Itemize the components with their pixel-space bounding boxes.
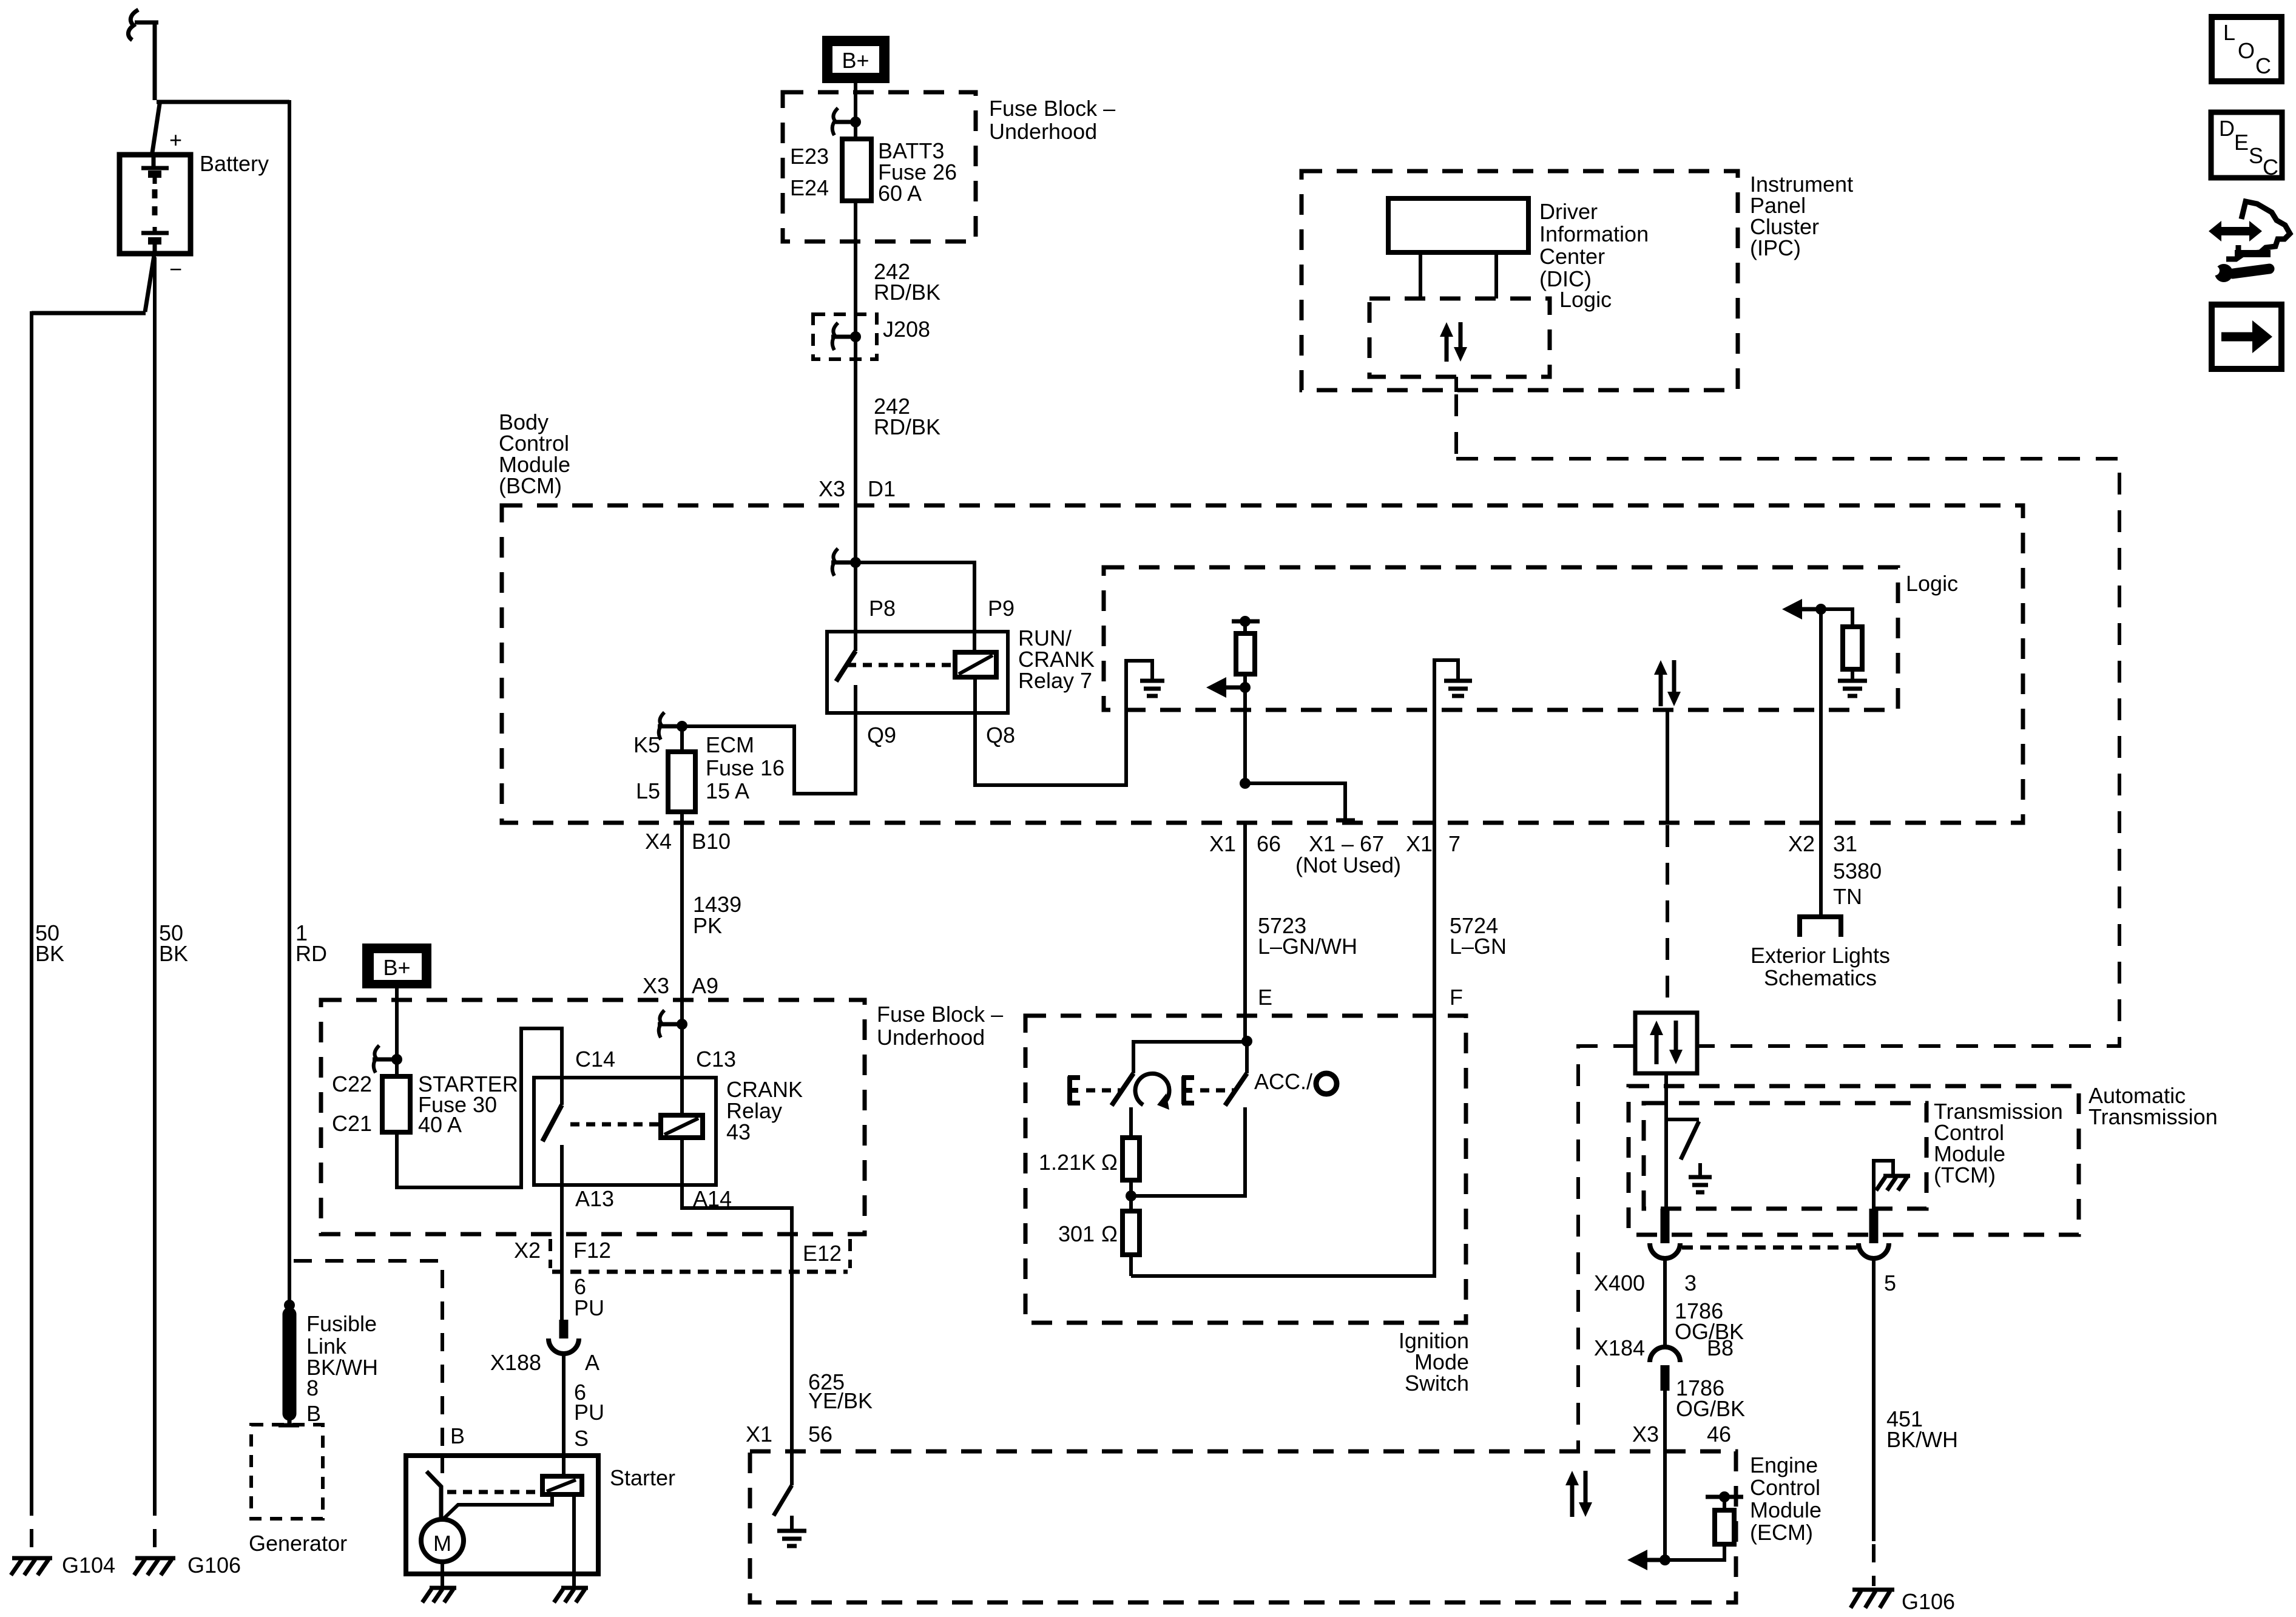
automatic transmission box — [1629, 1086, 2079, 1235]
starter box — [406, 1456, 598, 1574]
TCM switch — [1666, 1119, 1699, 1209]
clip at C13 — [658, 1010, 687, 1038]
inline connector X184 — [1650, 1347, 1680, 1391]
wire: B+ to BATT3 fuse — [854, 83, 857, 139]
label E (run position) — [1068, 1076, 1120, 1104]
svg-text:D1: D1 — [868, 476, 896, 501]
fuse ECM Fuse 16 15 A — [668, 726, 695, 823]
connector B+ (lower) — [362, 944, 431, 988]
wire 1 RD: battery positive to fusible link — [288, 100, 291, 1305]
fuse block underhood box (lower) — [321, 1000, 865, 1234]
fuse BATT3 Fuse 26 60 A — [842, 139, 871, 201]
svg-text:X400: X400 — [1594, 1271, 1645, 1295]
connector B+ (top) — [822, 36, 890, 83]
connector X400 pin 5 — [1859, 1209, 1889, 1258]
generator box — [251, 1425, 323, 1519]
ECM crank request switch (56) — [774, 1451, 792, 1516]
svg-text:Ω: Ω — [1101, 1150, 1118, 1175]
svg-text:43: 43 — [726, 1119, 751, 1144]
svg-text:ECM: ECM — [706, 732, 754, 757]
starter switch contact — [427, 1456, 442, 1520]
wire TCM serial box to switch — [1664, 1073, 1668, 1119]
icon next arrow box — [2212, 305, 2281, 369]
acc contact blade — [1225, 1073, 1247, 1106]
svg-text:(TCM): (TCM) — [1934, 1163, 1996, 1187]
svg-text:RD/BK: RD/BK — [874, 280, 940, 305]
svg-text:S: S — [574, 1426, 589, 1451]
svg-text:P8: P8 — [869, 596, 896, 621]
wire serial data BCM — [1666, 710, 1669, 823]
IPC box — [1302, 171, 1738, 390]
node: fusible link junction — [284, 1300, 295, 1311]
wire: slant into battery positive terminal — [152, 100, 160, 157]
svg-text:G106: G106 — [1902, 1589, 1955, 1614]
svg-text:Driver: Driver — [1539, 199, 1598, 224]
connector X400 body dashes — [1682, 1246, 1857, 1250]
wire 451 BK/WH to G106 — [1872, 1258, 1876, 1541]
ignition switch run contact — [1133, 1042, 1247, 1073]
resistor 1.21K — [1123, 1107, 1140, 1211]
BCM serial data arrows — [1654, 660, 1681, 706]
svg-text:B8: B8 — [1707, 1335, 1734, 1360]
svg-text:+: + — [169, 127, 182, 152]
svg-text:7: 7 — [1448, 831, 1460, 856]
resistor 301 — [1123, 1211, 1140, 1276]
wire DIC leg left — [1419, 252, 1422, 299]
wire 625 YE/BK E12 to ECM — [790, 1234, 794, 1451]
wire 5723 L-GN/WH — [1243, 823, 1247, 1041]
svg-text:X4: X4 — [645, 829, 672, 854]
ground (BCM X2 31) — [1838, 681, 1867, 696]
svg-text:66: 66 — [1257, 831, 1281, 856]
wire STARTER fuse to CRANK relay C14 — [397, 1028, 562, 1187]
icon DESC box — [2211, 112, 2282, 180]
ECM serial data arrows — [1565, 1471, 1592, 1517]
svg-text:E24: E24 — [790, 175, 829, 200]
wire 242 inside BCM to relay — [854, 505, 857, 562]
wire serial data to ECM (dashed) — [1578, 1046, 1635, 1451]
connector X400 pin 3 — [1650, 1209, 1680, 1258]
svg-text:301: 301 — [1058, 1221, 1095, 1246]
svg-text:46: 46 — [1707, 1422, 1731, 1447]
wire acc return — [1131, 1107, 1245, 1196]
wire 5380 TN — [1819, 609, 1823, 914]
BCM logic box — [1104, 567, 1898, 710]
wire B+ to STARTER fuse — [395, 988, 399, 1076]
wire Q8 to internal ground — [975, 661, 1152, 785]
svg-text:L–GN: L–GN — [1450, 934, 1507, 959]
wire solenoid to ground — [572, 1494, 576, 1587]
svg-text:5: 5 — [1884, 1271, 1896, 1295]
svg-text:Battery: Battery — [200, 151, 269, 176]
svg-text:Starter: Starter — [610, 1465, 675, 1490]
IPC serial data arrows — [1440, 322, 1467, 362]
svg-text:F12: F12 — [573, 1238, 611, 1263]
wire: battery positive to 1 RD branch — [157, 100, 289, 104]
svg-text:C: C — [2263, 155, 2278, 180]
svg-text:BK: BK — [159, 941, 188, 966]
ground G106 (right) — [1851, 1590, 1894, 1608]
icon LOC box — [2212, 17, 2281, 81]
wire: junction to P8 — [854, 562, 857, 651]
relay 2 actuation dashes — [570, 1122, 661, 1127]
svg-text:(Not Used): (Not Used) — [1295, 852, 1401, 877]
relay 1 switch blade — [836, 651, 856, 681]
svg-text:PU: PU — [574, 1400, 604, 1425]
svg-text:X1: X1 — [746, 1422, 772, 1447]
run contact blade — [1112, 1073, 1133, 1106]
inline connector X188 — [549, 1320, 579, 1354]
svg-text:Fusible: Fusible — [306, 1311, 377, 1336]
ground (TCM switch) — [1689, 1163, 1712, 1192]
svg-text:8: 8 — [306, 1376, 319, 1400]
svg-text:Underhood: Underhood — [877, 1025, 985, 1050]
DIC box — [1388, 198, 1528, 252]
wire X1 7 to internal ground — [1434, 660, 1458, 1016]
svg-text:C14: C14 — [575, 1047, 615, 1072]
svg-text:L: L — [2223, 20, 2235, 45]
svg-text:(BCM): (BCM) — [499, 473, 562, 498]
node: E input junction — [1241, 1036, 1252, 1047]
svg-text:TN: TN — [1833, 884, 1862, 909]
wire A14 to E12 — [682, 1138, 792, 1234]
fuse STARTER Fuse 30 40 A — [382, 1076, 410, 1132]
battery — [120, 155, 191, 254]
svg-text:Q8: Q8 — [986, 723, 1015, 748]
TCM box — [1644, 1103, 1926, 1209]
svg-text:X3: X3 — [819, 476, 845, 501]
svg-text:C13: C13 — [696, 1047, 736, 1072]
fusible link BK/WH 8 — [283, 1314, 297, 1414]
svg-text:Switch: Switch — [1405, 1371, 1469, 1396]
ground (TCM pin 5) — [1876, 1176, 1910, 1190]
svg-text:ACC./: ACC./ — [1254, 1069, 1312, 1094]
svg-text:Logic: Logic — [1906, 571, 1958, 596]
starter motor M — [421, 1519, 464, 1562]
wire return to F — [1131, 1016, 1434, 1276]
svg-text:P9: P9 — [988, 596, 1015, 621]
svg-text:Fuse Block –: Fuse Block – — [877, 1002, 1003, 1027]
TCM serial interface box — [1635, 1013, 1697, 1073]
svg-text:D: D — [2219, 116, 2235, 141]
wire: battery cable to starter B (dashed) — [294, 1261, 442, 1454]
BCM pull-up resistor on circuit 5723 — [1232, 616, 1260, 783]
svg-text:X1: X1 — [1406, 831, 1433, 856]
svg-text:60 A: 60 A — [878, 181, 922, 206]
svg-text:E: E — [1258, 985, 1272, 1010]
relay 2 switch blade — [542, 1105, 562, 1141]
wire: junction to P9 — [856, 562, 974, 652]
ground (BCM Q8) — [1140, 681, 1164, 696]
ECM pull-up on circuit 1786 — [1627, 1451, 1743, 1570]
svg-text:3: 3 — [1684, 1271, 1697, 1295]
svg-text:B+: B+ — [383, 955, 410, 980]
wire: battery positive vertical — [153, 21, 157, 100]
wire 242 RD/BK J208 to BCM — [854, 314, 857, 505]
svg-text:G106: G106 — [187, 1553, 241, 1578]
svg-text:F: F — [1450, 985, 1463, 1010]
svg-text:M: M — [433, 1531, 451, 1556]
svg-text:Control: Control — [1750, 1475, 1820, 1500]
svg-text:S: S — [2249, 143, 2263, 168]
ground G106 (left) — [134, 1558, 175, 1575]
wire solenoid to motor — [444, 1494, 552, 1519]
svg-text:5380: 5380 — [1833, 859, 1882, 883]
label E (acc position) — [1182, 1076, 1234, 1104]
svg-text:Exterior Lights: Exterior Lights — [1751, 943, 1890, 968]
wire A13 to F12 — [560, 1145, 564, 1234]
TCM ground pin 5 — [1874, 1161, 1893, 1209]
BCM box — [502, 505, 2023, 823]
icon service panel outline — [2226, 201, 2290, 259]
svg-text:Information: Information — [1539, 221, 1649, 246]
svg-text:BK: BK — [35, 941, 64, 966]
node: resistor junction — [1126, 1190, 1136, 1201]
svg-text:B: B — [450, 1423, 465, 1448]
svg-text:31: 31 — [1833, 831, 1857, 856]
ignition mode switch box — [1025, 1016, 1466, 1323]
fuse block underhood box (top) — [783, 92, 976, 241]
off-page connector to Exterior Lights — [1800, 917, 1841, 937]
wire X1-67 stub (Not Used) — [1240, 778, 1355, 820]
svg-text:X1: X1 — [1209, 831, 1236, 856]
clip at E23 — [832, 108, 861, 135]
svg-text:YE/BK: YE/BK — [808, 1388, 873, 1413]
ignition switch acc contact — [1245, 1041, 1249, 1073]
ground G104 — [11, 1558, 52, 1575]
wire 50 BK right: battery negative to G106 — [153, 257, 157, 1497]
wire: slant from battery negative — [145, 255, 154, 312]
svg-text:Ω: Ω — [1101, 1221, 1118, 1246]
svg-text:X2: X2 — [514, 1238, 541, 1263]
svg-text:Module: Module — [1750, 1497, 1822, 1522]
wire serial data IPC — [1454, 377, 1458, 392]
clip at K5 — [658, 712, 687, 740]
svg-text:Q9: Q9 — [867, 723, 896, 748]
svg-text:PU: PU — [574, 1295, 604, 1320]
svg-text:BK/WH: BK/WH — [1886, 1427, 1958, 1452]
svg-text:X188: X188 — [490, 1350, 541, 1375]
relay 1 actuation dashes — [847, 663, 955, 667]
relay CRANK Relay 43 box — [534, 1078, 716, 1185]
svg-text:A9: A9 — [692, 973, 718, 998]
svg-text:C21: C21 — [332, 1111, 372, 1136]
svg-text:Fuse Block –: Fuse Block – — [989, 96, 1115, 121]
wire 1439 PK from BCM to fuse block — [680, 823, 684, 1000]
clip at relay P8 junction — [831, 549, 861, 576]
svg-text:Schematics: Schematics — [1764, 965, 1877, 990]
icon service double arrow — [2209, 221, 2262, 241]
svg-text:Transmission: Transmission — [2088, 1104, 2218, 1129]
svg-text:K5: K5 — [633, 732, 660, 757]
svg-text:40 A: 40 A — [418, 1112, 462, 1137]
svg-text:E23: E23 — [790, 144, 829, 169]
svg-text:A: A — [585, 1350, 599, 1375]
svg-text:L5: L5 — [636, 778, 660, 803]
splice J208 — [813, 314, 877, 359]
svg-text:B10: B10 — [692, 829, 731, 854]
wire 50 BK left: battery negative to G104 — [32, 311, 146, 316]
svg-text:J208: J208 — [883, 317, 930, 342]
wire 242 RD/BK fuse to J208 — [854, 201, 857, 314]
svg-text:X184: X184 — [1594, 1335, 1645, 1360]
wire Q9 to ECM fuse — [682, 685, 856, 794]
svg-text:E: E — [2234, 130, 2249, 155]
wire S to solenoid coil — [562, 1456, 566, 1476]
wire DIC leg right — [1494, 252, 1498, 299]
wire 1786 OG/BK TCM to X184 — [1663, 1258, 1667, 1348]
wire 1786 OG/BK X184 to ECM — [1663, 1391, 1667, 1451]
BCM pull-down with signal arrow (X2 31) — [1782, 599, 1862, 680]
svg-text:Center: Center — [1539, 244, 1605, 269]
svg-text:G104: G104 — [62, 1553, 115, 1578]
svg-text:X3: X3 — [643, 973, 669, 998]
starter solenoid coil — [542, 1476, 582, 1494]
svg-text:X2: X2 — [1788, 831, 1815, 856]
svg-text:1.21K: 1.21K — [1039, 1150, 1096, 1175]
svg-text:Generator: Generator — [249, 1531, 347, 1556]
ground (starter motor) — [422, 1588, 456, 1602]
svg-text:RD: RD — [295, 941, 327, 966]
IPC logic box — [1369, 299, 1550, 377]
svg-text:−: − — [169, 257, 182, 282]
svg-text:A14: A14 — [693, 1186, 732, 1211]
node and signal arrow (BCM 66) — [1206, 677, 1251, 698]
clip at C22 — [373, 1045, 402, 1073]
svg-text:PK: PK — [693, 913, 722, 938]
wire C13 into relay coil — [680, 1000, 684, 1115]
svg-text:Fuse 16: Fuse 16 — [706, 755, 785, 780]
wire serial data bus (dashed) — [1456, 459, 2119, 1046]
ignition rotation arrow — [1135, 1073, 1169, 1110]
svg-text:O: O — [2238, 38, 2255, 63]
svg-text:Logic: Logic — [1559, 287, 1612, 312]
svg-text:L–GN/WH: L–GN/WH — [1258, 934, 1357, 959]
wire motor to ground — [441, 1562, 444, 1587]
ECM box — [750, 1451, 1736, 1602]
ground (BCM X1 7) — [1444, 681, 1472, 696]
wire 6 PU F12 to X188 — [560, 1234, 564, 1320]
svg-text:B+: B+ — [842, 48, 869, 73]
icon service arrow mark — [2235, 245, 2271, 254]
svg-text:C: C — [2255, 53, 2271, 78]
svg-text:OG/BK: OG/BK — [1676, 1396, 1745, 1421]
svg-text:C22: C22 — [332, 1072, 372, 1096]
ground (starter solenoid) — [554, 1588, 588, 1602]
relay 1 coil — [955, 652, 996, 677]
relay 2 coil — [661, 1115, 703, 1138]
svg-text:56: 56 — [808, 1422, 832, 1447]
svg-text:A13: A13 — [575, 1186, 614, 1211]
svg-text:(ECM): (ECM) — [1750, 1520, 1813, 1545]
svg-text:Relay 7: Relay 7 — [1018, 668, 1092, 693]
connector row X2 F12 E12 — [550, 1239, 850, 1272]
svg-text:(IPC): (IPC) — [1750, 235, 1801, 260]
svg-text:RD/BK: RD/BK — [874, 414, 940, 439]
svg-text:15 A: 15 A — [706, 778, 749, 803]
wire 6 PU X188 to starter S — [562, 1354, 566, 1456]
ground (ECM 56) — [777, 1516, 806, 1546]
svg-text:Engine: Engine — [1750, 1453, 1818, 1477]
ACC circle — [1316, 1073, 1337, 1094]
relay RUN/CRANK Relay 7 box — [827, 632, 1008, 713]
svg-text:X3: X3 — [1632, 1422, 1659, 1447]
svg-text:E12: E12 — [803, 1241, 842, 1266]
svg-text:B: B — [306, 1401, 321, 1426]
icon service wrench — [2210, 264, 2269, 282]
starter relay actuation dashes — [447, 1490, 542, 1494]
svg-text:Underhood: Underhood — [989, 119, 1097, 144]
wire: battery positive continuation hook — [135, 21, 158, 25]
